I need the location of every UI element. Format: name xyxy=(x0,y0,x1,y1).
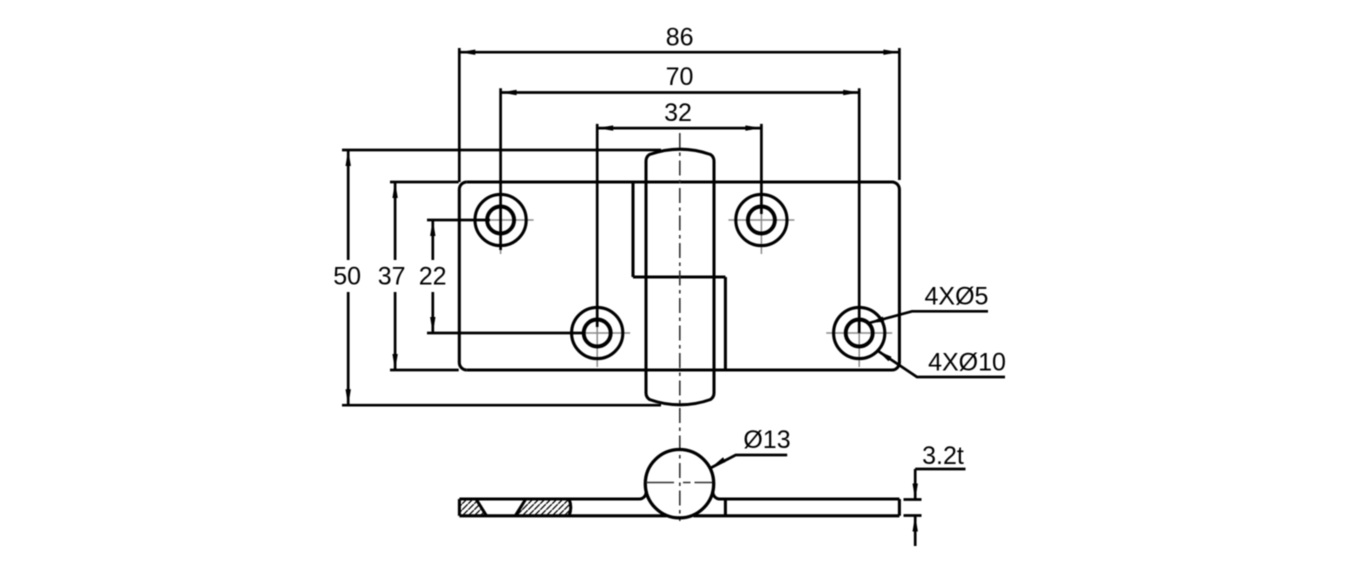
svg-text:4XØ5: 4XØ5 xyxy=(925,282,989,310)
svg-text:4XØ10: 4XØ10 xyxy=(928,348,1006,376)
svg-text:Ø13: Ø13 xyxy=(743,426,790,454)
svg-text:22: 22 xyxy=(419,263,447,291)
svg-text:37: 37 xyxy=(378,263,406,291)
svg-text:86: 86 xyxy=(666,23,694,51)
svg-text:50: 50 xyxy=(333,263,361,291)
svg-text:70: 70 xyxy=(666,63,694,91)
svg-text:3.2t: 3.2t xyxy=(922,442,964,470)
svg-text:32: 32 xyxy=(664,99,692,127)
